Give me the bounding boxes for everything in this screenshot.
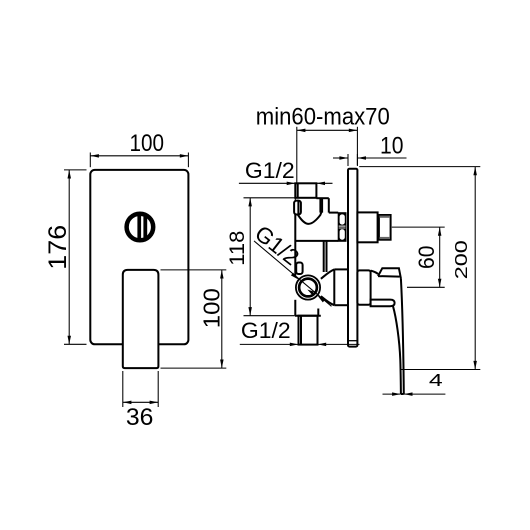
dim 200 line bbox=[474, 167, 476, 370]
svg-text:176: 176 bbox=[44, 225, 72, 270]
dim 200 extension top bbox=[359, 166, 480, 168]
svg-text:118: 118 bbox=[224, 231, 249, 266]
front lever handle bbox=[123, 270, 159, 368]
body right vline b bbox=[326, 241, 328, 272]
dim 200 arrow bottom bbox=[473, 361, 477, 370]
dim 10 arrow left bbox=[339, 156, 348, 160]
hub behind plate top bbox=[334, 268, 348, 270]
dim 4 arrow right bbox=[404, 392, 413, 396]
dim 10 right line bbox=[357, 157, 406, 159]
body left edge bbox=[294, 215, 296, 276]
svg-text:G1/2: G1/2 bbox=[245, 158, 295, 183]
diverter knob ring bbox=[127, 214, 154, 241]
hub behind plate left bbox=[333, 269, 335, 305]
dim G1/2 diagonal arrow upper bbox=[291, 273, 299, 280]
dim 4 arrow left bbox=[392, 392, 401, 396]
dim 10 arrow right bbox=[357, 156, 366, 160]
left boss inner line bbox=[297, 201, 299, 214]
stub above port circle bbox=[296, 263, 302, 275]
cone to hub top bbox=[321, 269, 334, 278]
dim G1/2 bottom arrow left bbox=[290, 343, 299, 347]
dim 118 arrow bottom bbox=[248, 307, 252, 316]
outlet nut bbox=[357, 212, 377, 242]
dim G1/2 top arrow left bbox=[287, 182, 296, 186]
dim 176 extension bottom bbox=[64, 343, 87, 345]
dim 118 arrow top bbox=[248, 198, 252, 207]
body below circle right edge bbox=[317, 309, 319, 316]
thread band hole top bbox=[340, 214, 345, 224]
dim 118 extension top bbox=[244, 197, 296, 199]
dim 100 right arrow bottom bbox=[220, 360, 224, 369]
thread band mid slit bbox=[339, 226, 346, 229]
thread band mid line bbox=[338, 226, 346, 228]
dim min60-max70 extension right bbox=[356, 127, 358, 165]
dim G1/2 top line right bbox=[316, 182, 332, 184]
lever back face bbox=[378, 268, 401, 278]
svg-text:4: 4 bbox=[429, 370, 443, 390]
svg-text:min60-max70: min60-max70 bbox=[256, 104, 390, 131]
front wall plate bbox=[90, 170, 188, 344]
dim 4 left line bbox=[383, 393, 401, 395]
dim 118 line bbox=[249, 198, 251, 316]
dim 100 right arrow top bbox=[220, 270, 224, 279]
left boss bbox=[294, 201, 301, 215]
dim 60 arrow bottom bbox=[438, 279, 442, 288]
dim 4 right line bbox=[404, 393, 446, 395]
svg-text:10: 10 bbox=[380, 133, 404, 160]
cone to hub bottom bbox=[321, 296, 334, 305]
dim 100 right line bbox=[221, 270, 223, 368]
dim G1/2 top arrow right bbox=[316, 182, 325, 186]
lever arm inner edge bbox=[393, 306, 401, 394]
dim min60-max70 arrow right bbox=[349, 129, 358, 133]
dim G1/2 diagonal leader bbox=[254, 241, 332, 306]
body top step line bbox=[316, 197, 328, 199]
dim 36 arrow left bbox=[123, 401, 132, 405]
dim min60-max70 arrow left bbox=[297, 129, 306, 133]
outlet thread crest top bbox=[380, 216, 391, 218]
lever top edge bbox=[371, 271, 378, 274]
dim G1/2 bottom arrow right bbox=[318, 343, 327, 347]
dim 100 right extension bottom bbox=[161, 367, 227, 369]
dim 60 extension top bbox=[392, 226, 445, 228]
dim 36 line bbox=[123, 401, 158, 403]
dim 118 extension bottom bbox=[244, 315, 295, 317]
dim 100 top extension left bbox=[89, 153, 91, 168]
dim G1/2 bottom line right bbox=[318, 343, 360, 345]
svg-text:G1/2: G1/2 bbox=[241, 318, 291, 343]
body left edge lower bbox=[294, 300, 296, 316]
lever tip end bbox=[401, 393, 404, 395]
dim 200 arrow top bbox=[473, 167, 477, 176]
svg-text:200: 200 bbox=[451, 240, 471, 279]
side port circle inner bbox=[299, 279, 317, 297]
dim 36 extension right bbox=[157, 371, 159, 407]
bottom outlet pipe bbox=[299, 316, 318, 345]
dim G1/2 diagonal leader flag bbox=[307, 290, 313, 296]
body step vline b bbox=[321, 198, 323, 212]
lever hub escutcheon bbox=[357, 270, 370, 304]
thread band hole bottom bbox=[340, 229, 345, 239]
dim min60-max70 extension left bbox=[296, 127, 298, 183]
outlet male thread bbox=[379, 215, 391, 240]
lever hub bar bbox=[371, 300, 395, 307]
top inlet pipe bbox=[295, 183, 316, 198]
diverter knob slot bar right bbox=[143, 214, 147, 239]
dim 176 arrow bottom bbox=[68, 336, 72, 345]
svg-text:100: 100 bbox=[130, 130, 165, 157]
thread band outer bbox=[338, 213, 346, 242]
dim 176 line bbox=[68, 170, 70, 344]
dim 36 extension left bbox=[122, 371, 124, 407]
body left edge upper bbox=[294, 198, 296, 201]
dim 176 arrow top bbox=[68, 170, 72, 179]
dim 10 extension right bbox=[356, 154, 358, 166]
dim 100 top line bbox=[90, 155, 188, 157]
hub behind plate bottom bbox=[334, 304, 348, 306]
dim 200 extension bottom bbox=[401, 369, 480, 371]
dim G1/2 top line left bbox=[239, 182, 295, 184]
dim 10 left line bbox=[333, 157, 348, 159]
dim 60 extension bottom bbox=[407, 286, 445, 288]
dim 100 top arrow right bbox=[180, 154, 189, 158]
bottom outlet pipe inner line bbox=[300, 316, 302, 345]
dim 36 arrow right bbox=[150, 401, 159, 405]
dim 60 line bbox=[439, 227, 441, 287]
body saddle curve bbox=[298, 211, 322, 224]
dim 60 arrow top bbox=[438, 227, 442, 236]
lever arm outer edge bbox=[401, 278, 404, 394]
top inlet pipe inner line bbox=[297, 183, 299, 198]
body right vline a bbox=[323, 241, 325, 272]
dim 176 extension top bbox=[64, 169, 87, 171]
outlet thread crest bottom bbox=[380, 237, 391, 239]
svg-text:100: 100 bbox=[199, 288, 225, 328]
dim 100 top extension right bbox=[187, 153, 189, 168]
body mid joint line bbox=[295, 240, 338, 242]
body step vline a bbox=[319, 198, 321, 212]
dim G1/2 bottom line left bbox=[240, 343, 299, 345]
dim 100 right extension top bbox=[161, 269, 227, 271]
outlet boss top line bbox=[329, 212, 338, 214]
body bottom shoulder bbox=[295, 315, 321, 317]
dim 100 top arrow left bbox=[90, 154, 99, 158]
wall plate bottom rim line bbox=[348, 340, 357, 342]
dim G1/2 diagonal arrow lower bbox=[317, 296, 325, 303]
svg-text:60: 60 bbox=[414, 245, 439, 269]
body step vline c bbox=[328, 198, 330, 212]
dim min60-max70 line bbox=[297, 129, 358, 131]
wall plate side bbox=[348, 169, 357, 347]
diverter knob slot bar left bbox=[137, 214, 141, 239]
side port circle outer bbox=[296, 275, 320, 299]
svg-text:36: 36 bbox=[126, 404, 154, 431]
dim 10 extension left bbox=[347, 154, 349, 166]
